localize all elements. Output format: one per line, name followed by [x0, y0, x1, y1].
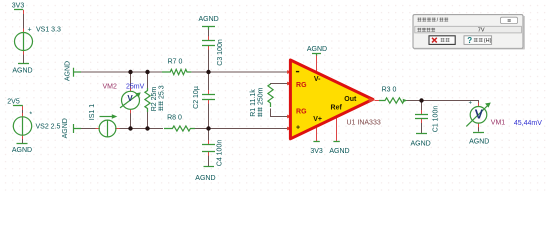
svg-text:?: ?: [467, 36, 472, 45]
svg-text:AGND: AGND: [329, 148, 349, 155]
svg-text:VM1: VM1: [491, 120, 506, 127]
svg-text:C1 100n: C1 100n: [432, 106, 439, 133]
svg-text:25mV: 25mV: [126, 83, 145, 90]
svg-text:C4 100n: C4 100n: [216, 140, 223, 167]
svg-text:VS1 3.3: VS1 3.3: [36, 27, 61, 34]
svg-text:25.3: 25.3: [158, 85, 165, 99]
svg-text:AGND: AGND: [198, 16, 218, 23]
svg-text:AGND: AGND: [307, 46, 327, 53]
svg-text:R1 11.1k: R1 11.1k: [250, 89, 257, 117]
svg-text:(H): (H): [484, 38, 492, 44]
svg-text:250m: 250m: [258, 87, 265, 105]
svg-text:+: +: [469, 100, 473, 106]
svg-text:Ref: Ref: [331, 105, 343, 112]
svg-text:C2 10µ: C2 10µ: [193, 86, 200, 109]
svg-text:3V3: 3V3: [12, 3, 25, 10]
svg-text:C3 100n: C3 100n: [217, 39, 224, 66]
svg-text:AGND: AGND: [469, 138, 489, 145]
svg-text:V+: V+: [313, 116, 322, 123]
svg-text:V-: V-: [314, 76, 321, 83]
svg-text:V: V: [475, 108, 484, 122]
svg-text:RG: RG: [296, 82, 307, 89]
svg-text:VM2: VM2: [103, 84, 118, 91]
svg-text:Out: Out: [344, 96, 357, 103]
svg-text:IS1 1: IS1 1: [89, 104, 96, 120]
svg-text:R2 25m: R2 25m: [151, 87, 158, 112]
svg-text:*: *: [29, 112, 32, 119]
svg-text:R8 0: R8 0: [167, 115, 182, 122]
svg-text:U1 INA333: U1 INA333: [347, 120, 381, 127]
svg-text:AGND: AGND: [65, 61, 72, 81]
svg-text:RG: RG: [296, 109, 307, 116]
svg-text:AGND: AGND: [410, 140, 430, 147]
svg-text:+: +: [296, 124, 300, 131]
svg-text:R7 0: R7 0: [168, 59, 183, 66]
svg-text:2V5: 2V5: [7, 98, 20, 105]
svg-text:AGND: AGND: [62, 118, 69, 138]
svg-text:7V: 7V: [478, 28, 485, 34]
svg-text:AGND: AGND: [195, 175, 215, 182]
svg-text:AGND: AGND: [12, 68, 32, 75]
svg-text:45,44mV: 45,44mV: [514, 120, 542, 127]
svg-text:AGND: AGND: [12, 147, 32, 154]
svg-text:R3 0: R3 0: [382, 86, 397, 93]
svg-text:V: V: [127, 94, 133, 103]
svg-text:3V3: 3V3: [310, 148, 323, 155]
svg-text:VS2 2.5: VS2 2.5: [36, 123, 61, 130]
svg-text:+: +: [28, 27, 32, 34]
